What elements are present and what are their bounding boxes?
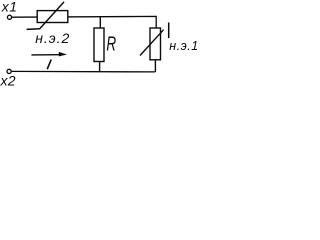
svg-text:x1: x1 [1, 0, 18, 14]
svg-text:x2: x2 [0, 72, 16, 88]
svg-text:н.э.2: н.э.2 [35, 30, 70, 46]
svg-text:н.э.1: н.э.1 [169, 39, 197, 53]
svg-text:R: R [106, 34, 116, 56]
